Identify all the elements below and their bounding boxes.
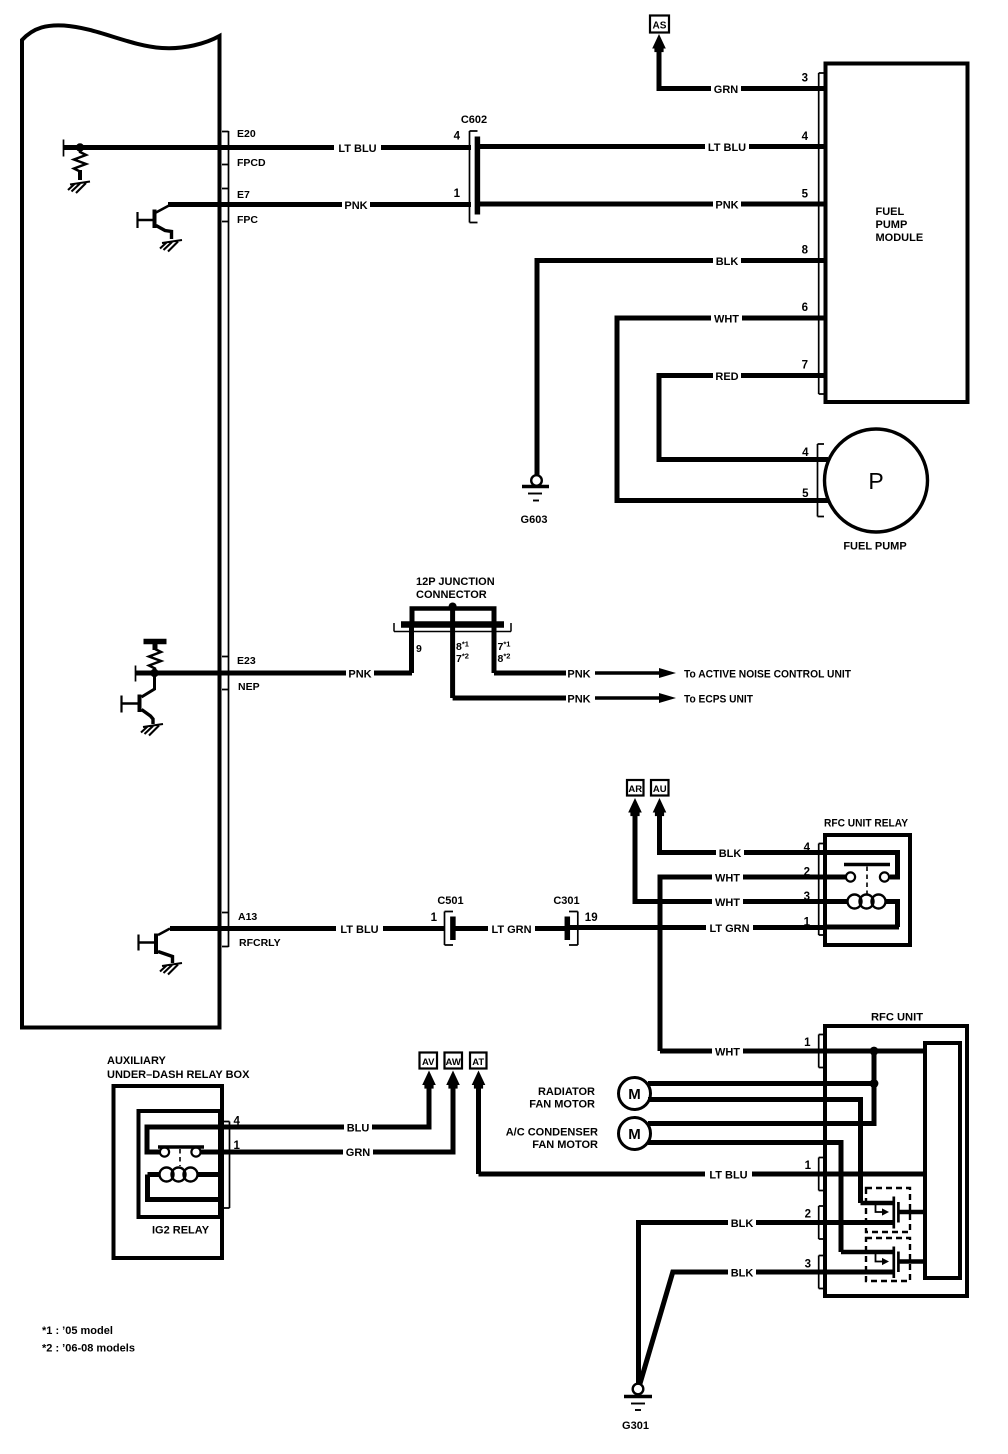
radiator fan motor [619,1078,651,1110]
svg-text:C501: C501 [437,895,463,907]
auxiliary under-dash relay box [114,1086,223,1258]
svg-text:LT GRN: LT GRN [491,924,531,936]
svg-text:FUEL PUMP: FUEL PUMP [843,541,906,553]
svg-text:E23: E23 [237,655,256,667]
transistor (E23 driver) [142,673,155,697]
ground (E7) [160,240,182,252]
svg-text:BLU: BLU [347,1123,370,1135]
wire A/C fan bottom into RFC unit [648,1143,841,1253]
connector AU [651,780,669,796]
svg-text:6: 6 [802,302,808,314]
svg-text:WHT: WHT [715,897,740,909]
svg-text:1: 1 [454,188,461,200]
svg-text:FPC: FPC [237,214,258,226]
wire E20 internal + LT BLU to C602 [64,145,471,150]
pin 1 bracket (WHT) [819,1035,825,1068]
svg-text:3: 3 [805,1259,811,1271]
relay contact actuator (dashed) [866,867,868,895]
svg-text:19: 19 [585,912,598,924]
fuel pump motor P [825,429,928,532]
wire BLK pin2 to G301 [639,1223,895,1384]
ground (A13) [160,963,182,975]
svg-text:NEP: NEP [238,681,260,693]
resistor (E23 pull-up) [149,649,161,673]
svg-text:5: 5 [802,488,809,500]
FET 2 (A/C fan driver, dashed box) [866,1238,910,1281]
svg-text:WHT: WHT [715,873,740,885]
wire label LT BLU (left) [334,141,381,155]
node (radiator fan junction) [870,1079,879,1088]
svg-text:1: 1 [805,1160,812,1172]
svg-text:2: 2 [805,1209,811,1221]
wire radiator fan top [648,1081,874,1086]
arrow to AR [628,798,642,816]
svg-text:FUEL: FUEL [876,206,905,218]
RFC unit inner block [925,1043,960,1278]
wire RED pin7 to fuel pump pin 4 [659,376,828,460]
wire E23 PNK to junction pin 9 [136,671,412,676]
svg-text:FPCD: FPCD [237,157,266,169]
arrow to AT [472,1071,486,1089]
wire WHT relay pin 2 down to RFC unit [660,877,825,1051]
pin 8/7 stub [450,627,455,698]
wire GRN to AS [659,48,825,89]
IG2 contact circles [160,1147,169,1156]
IG2 relay inner box [139,1111,221,1217]
svg-text:IG2 RELAY: IG2 RELAY [152,1225,210,1237]
relay coil [825,899,848,904]
wire GRN IG2 pin1 to AW [201,1085,453,1152]
pin 7/8 stub [492,627,497,673]
svg-text:AU: AU [653,784,667,795]
wire WHT AR to relay pin 3 [635,812,825,902]
svg-text:3: 3 [804,891,810,903]
resistor (E20 pull-down) [74,150,86,172]
svg-text:1: 1 [804,917,811,929]
svg-text:4: 4 [804,842,811,854]
wire LT GRN C501 to C301 [455,926,567,931]
svg-text:WHT: WHT [715,1047,740,1059]
FET 1 (radiator fan driver, dashed box) [866,1188,910,1232]
wire LT GRN C301 to relay pin 1 [570,925,825,930]
terminal cap E20 [63,140,65,157]
relay contact wiring [825,853,898,878]
svg-text:4: 4 [454,131,461,143]
svg-text:FAN MOTOR: FAN MOTOR [532,1139,598,1151]
wire label PNK (left) [342,198,370,212]
wire WHT pin6 to fuel pump pin 5 [617,318,828,501]
svg-text:1: 1 [804,1037,811,1049]
wire PNK C602 to fuel pump module pin 5 [477,202,825,207]
node (WHT junction) [870,1047,879,1056]
svg-text:8: 8 [802,245,809,257]
svg-text:GRN: GRN [714,84,739,96]
svg-text:To ACTIVE NOISE CONTROL UNIT: To ACTIVE NOISE CONTROL UNIT [684,669,851,681]
ground G301 [622,1384,652,1432]
arrow to AW [446,1071,460,1089]
svg-text:9: 9 [416,643,422,655]
svg-text:PNK: PNK [348,669,371,681]
svg-text:To ECPS UNIT: To ECPS UNIT [684,694,753,706]
IG2 contact actuator (dashed) [179,1149,181,1166]
svg-text:BLK: BLK [731,1218,754,1230]
fuel pump module connector bracket [819,73,825,394]
terminal cap E23 [135,666,137,682]
svg-text:LT BLU: LT BLU [709,1170,747,1182]
svg-text:AV: AV [422,1057,435,1068]
relay contact bar [844,863,890,866]
pin 3 bracket (BLK) [819,1256,825,1289]
pin 2 bracket (BLK) [819,1206,825,1239]
wire BLU IG2 pin4 to AV [147,1085,429,1152]
svg-text:A/C CONDENSER: A/C CONDENSER [506,1127,598,1139]
svg-text:RADIATOR: RADIATOR [538,1086,595,1098]
IG2 coil return wiring [148,1175,221,1200]
svg-text:M: M [628,1086,641,1103]
pin 9 stub [409,627,414,673]
svg-text:G603: G603 [521,514,548,526]
svg-text:*2 : ’06-08 models: *2 : ’06-08 models [42,1343,135,1355]
svg-text:M: M [628,1126,641,1143]
fuel pump connector bracket [818,444,825,517]
svg-text:7: 7 [802,360,808,372]
svg-text:RFC UNIT RELAY: RFC UNIT RELAY [824,818,909,830]
connector AW [445,1053,463,1069]
connector AV [420,1053,438,1069]
svg-text:4: 4 [802,447,809,459]
svg-text:G301: G301 [622,1420,649,1432]
svg-text:AS: AS [653,21,667,32]
svg-text:PNK: PNK [567,669,590,681]
transistor (A13 driver) [158,929,170,936]
wire WHT into RFC unit [660,1049,925,1054]
fuel pump module box [826,64,968,403]
svg-text:RFCRLY: RFCRLY [239,937,281,949]
wire E7 PNK to C602 [168,202,471,207]
wire BLK pin8 to G603 [537,261,825,476]
ECM multi-pin connector line [222,131,229,947]
connector AT [470,1053,487,1069]
12P junction connector body [401,621,504,628]
svg-text:RFC UNIT: RFC UNIT [871,1012,923,1024]
wire AT down to LT BLU [476,1085,481,1174]
svg-text:MODULE: MODULE [876,232,924,244]
svg-text:A13: A13 [238,911,257,923]
transistor (E7 driver) [136,212,138,228]
svg-text:BLK: BLK [731,1268,754,1280]
svg-text:AT: AT [472,1057,484,1068]
svg-text:C602: C602 [461,114,487,126]
relay connector bracket [819,844,825,936]
RFC unit relay box [825,835,910,945]
wire BLK AU to relay pin 4 [660,812,826,853]
power bar (E23 pull-up supply) [144,639,167,645]
arrow to AV [422,1071,436,1089]
svg-text:RED: RED [715,371,738,383]
ground G603 [521,475,549,526]
svg-text:LT BLU: LT BLU [338,143,376,155]
connector AR [627,780,644,796]
svg-text:2: 2 [804,867,810,879]
svg-text:LT GRN: LT GRN [709,923,749,935]
svg-text:4: 4 [802,131,809,143]
ECM / PCM box (large left box with wavy top) [22,25,220,1027]
svg-text:PNK: PNK [344,200,367,212]
arrow to AS [652,34,666,52]
wire LT BLU AT to RFC unit [479,1172,926,1177]
svg-text:12P JUNCTION: 12P JUNCTION [416,576,495,588]
svg-text:3: 3 [802,73,808,85]
svg-text:C301: C301 [553,895,579,907]
IG2 connector bracket [222,1122,230,1209]
IG2 coil [148,1172,161,1177]
svg-text:BLK: BLK [716,256,739,268]
wire PNK to ECPS unit [453,696,566,701]
relay contact circles [846,872,855,881]
svg-text:BLK: BLK [719,848,742,860]
ground (E23) [141,724,163,736]
svg-text:1: 1 [431,912,438,924]
wire label PNK (E23) [346,667,374,681]
wire BLK pin3 to G301 (diagonal) [640,1272,894,1384]
svg-text:PNK: PNK [567,694,590,706]
svg-text:P: P [868,468,883,494]
svg-text:E7: E7 [237,189,250,201]
connector AS [650,16,669,33]
wire radiator fan bottom into RFC unit [648,1100,861,1204]
svg-text:5: 5 [802,189,809,201]
svg-text:PUMP: PUMP [876,219,908,231]
ground (E20) [68,182,90,194]
svg-text:GRN: GRN [346,1147,371,1159]
node E20 junction [76,143,84,151]
svg-text:PNK: PNK [715,200,738,212]
svg-text:FAN MOTOR: FAN MOTOR [529,1099,595,1111]
svg-text:CONNECTOR: CONNECTOR [416,589,487,601]
wire A13 LT BLU to C501 [170,926,445,931]
pin 1 bracket (LT BLU) [819,1158,825,1191]
IG2 contact bar [158,1145,204,1148]
wire PNK to active noise control unit [494,671,566,676]
svg-text:LT BLU: LT BLU [708,142,746,154]
svg-text:UNDER–DASH RELAY BOX: UNDER–DASH RELAY BOX [107,1069,250,1081]
RFC unit box [825,1026,967,1296]
svg-text:AUXILIARY: AUXILIARY [107,1055,167,1067]
svg-text:E20: E20 [237,128,256,140]
A/C condenser fan motor [619,1118,651,1150]
svg-text:AR: AR [628,784,642,795]
wire LT BLU C602 to fuel pump module pin 4 [477,144,825,149]
svg-text:AW: AW [446,1057,461,1068]
svg-text:LT BLU: LT BLU [340,924,378,936]
wire junction down to fan motors [648,1051,874,1124]
svg-text:*1 : ’05 model: *1 : ’05 model [42,1325,113,1337]
svg-text:WHT: WHT [714,314,739,326]
arrow to AU [653,798,667,816]
node E23 junction [150,669,158,677]
